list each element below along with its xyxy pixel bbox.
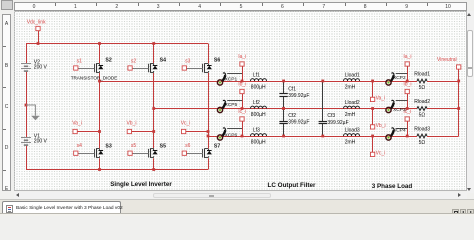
- svg-text:Vb_i: Vb_i: [376, 123, 386, 129]
- svg-text:800µH: 800µH: [251, 140, 266, 146]
- svg-text:Vb_i: Vb_i: [126, 120, 136, 126]
- svg-text:S3: S3: [105, 144, 111, 150]
- svg-text:S2: S2: [105, 58, 111, 64]
- svg-text:XCP1: XCP1: [225, 77, 238, 83]
- svg-text:S7: S7: [214, 144, 220, 150]
- svg-text:3 Phase Load: 3 Phase Load: [372, 183, 413, 190]
- svg-text:800µH: 800µH: [251, 112, 266, 118]
- svg-text:5Ω: 5Ω: [419, 140, 426, 146]
- svg-text:Vc_i: Vc_i: [376, 150, 386, 156]
- svg-text:Lload3: Lload3: [345, 127, 360, 133]
- svg-text:Ib_i: Ib_i: [403, 82, 411, 88]
- svg-text:Lf3: Lf3: [253, 127, 260, 133]
- svg-text:Lload2: Lload2: [345, 100, 360, 106]
- svg-text:399.92µF: 399.92µF: [288, 120, 309, 126]
- svg-text:S6: S6: [214, 58, 220, 64]
- svg-text:Vineutral: Vineutral: [437, 57, 457, 63]
- svg-text:Cf2: Cf2: [288, 113, 296, 119]
- svg-text:s5: s5: [131, 143, 137, 149]
- svg-text:2mH: 2mH: [345, 85, 356, 91]
- svg-text:S5: S5: [160, 144, 166, 150]
- svg-text:Ia_i: Ia_i: [403, 54, 411, 60]
- svg-text:Single Level Inverter: Single Level Inverter: [110, 181, 172, 188]
- svg-text:Ic_i: Ic_i: [238, 109, 246, 115]
- svg-text:Va_i: Va_i: [376, 95, 386, 101]
- svg-text:s1: s1: [77, 59, 83, 65]
- svg-text:S4: S4: [160, 58, 166, 64]
- svg-text:s6: s6: [185, 143, 191, 149]
- svg-text:Vc_i: Vc_i: [181, 120, 191, 126]
- svg-text:s3: s3: [185, 59, 191, 65]
- svg-text:Lload1: Lload1: [345, 72, 360, 78]
- svg-text:Lf2: Lf2: [253, 100, 260, 106]
- svg-text:XCP3: XCP3: [393, 107, 406, 113]
- svg-text:Rload3: Rload3: [414, 126, 430, 132]
- svg-text:200 V: 200 V: [34, 139, 48, 145]
- svg-text:TRANSISTOR_DIODE: TRANSISTOR_DIODE: [71, 76, 118, 81]
- svg-text:XCP6: XCP6: [225, 133, 238, 139]
- svg-text:Va_i: Va_i: [72, 120, 82, 126]
- svg-text:Cf1: Cf1: [288, 86, 296, 92]
- svg-text:2mH: 2mH: [345, 140, 356, 146]
- svg-text:5Ω: 5Ω: [419, 112, 426, 118]
- svg-text:200 V: 200 V: [34, 65, 48, 71]
- svg-text:399.92µF: 399.92µF: [288, 93, 309, 99]
- svg-text:2mH: 2mH: [345, 112, 356, 118]
- svg-text:Rload1: Rload1: [414, 71, 430, 77]
- svg-text:LC Output Filter: LC Output Filter: [268, 182, 316, 189]
- svg-text:Ia_i: Ia_i: [238, 54, 246, 60]
- svg-text:Ib_i: Ib_i: [238, 82, 246, 88]
- svg-text:Rload2: Rload2: [414, 99, 430, 105]
- svg-text:XCP2: XCP2: [393, 75, 406, 81]
- svg-text:Vdc_link: Vdc_link: [27, 20, 46, 26]
- svg-text:Cf3: Cf3: [327, 113, 335, 119]
- svg-text:800µH: 800µH: [251, 85, 266, 91]
- svg-text:XCP4: XCP4: [393, 128, 406, 134]
- svg-text:399.92µF: 399.92µF: [327, 120, 348, 126]
- svg-text:s4: s4: [77, 143, 83, 149]
- svg-text:Lf1: Lf1: [253, 72, 260, 78]
- svg-text:s2: s2: [131, 59, 137, 65]
- svg-text:5Ω: 5Ω: [419, 85, 426, 91]
- svg-text:XCP5: XCP5: [225, 102, 238, 108]
